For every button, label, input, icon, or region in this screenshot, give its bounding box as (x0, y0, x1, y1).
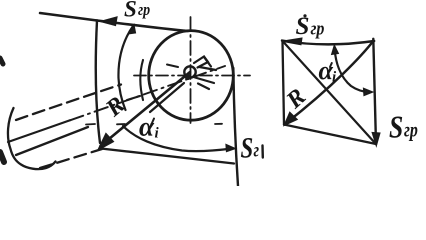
arrowhead Srp right-figure right (372, 133, 380, 146)
label Srp top right figure (296, 13, 325, 40)
hub stroke lower right b (198, 84, 209, 90)
workpiece top dashed edge (16, 85, 121, 121)
svg-text:R: R (101, 92, 131, 123)
inclined axis dash-dot through center (8, 120, 70, 142)
svg-text:S: S (389, 110, 403, 145)
right figure: diagonal R vector (285, 42, 373, 124)
scan artifact left edge lower (0, 152, 4, 162)
right figure: diagonal resultant (283, 42, 375, 144)
right figure: bottom edge (284, 125, 376, 145)
label Srf thin stroke (261, 146, 264, 158)
wire right vertical edge / Srf vector line (233, 68, 238, 186)
dash line under circle c (215, 123, 222, 125)
wire top edge of cutter holder (97, 21, 188, 32)
svg-text:S: S (241, 130, 254, 164)
arrowhead trajectory arc up (128, 25, 135, 35)
angle arc alpha-i (123, 126, 231, 151)
stray dash near R label (127, 96, 140, 100)
svg-text:i: i (155, 126, 160, 142)
arrowhead Srp left-figure top vector (101, 17, 118, 26)
workpiece broken end cap (8, 108, 56, 169)
svg-text:S: S (124, 0, 137, 22)
hub stroke lower right a (195, 78, 214, 84)
arrowhead R at tool tip (99, 134, 114, 150)
arrowhead right-figure alpha arc bottom (364, 88, 373, 95)
svg-text:R: R (281, 84, 311, 115)
tooth stroke 3 (200, 67, 217, 70)
right figure angle arc alpha-i (335, 48, 371, 92)
dot above S right figure (303, 14, 306, 17)
alpha ascender stroke right figure (330, 63, 332, 67)
arrowhead right-figure alpha arc top (332, 45, 339, 55)
dash left of hub (167, 65, 178, 68)
dash line under circle b (117, 123, 125, 125)
svg-text:г: г (254, 140, 260, 161)
arrowhead Srp right-figure top (282, 38, 303, 45)
workpiece bottom dashed edge (40, 149, 102, 168)
arrowhead R right figure (284, 112, 297, 125)
inclined axis dash-dot continuation (70, 66, 225, 120)
hub ink blob (185, 74, 191, 80)
svg-text:i: i (332, 70, 337, 86)
svg-text:α: α (139, 112, 155, 142)
dash line under circle a (86, 123, 95, 126)
svg-text:S: S (296, 13, 310, 40)
workpiece lower solid edge (16, 127, 88, 155)
right figure: right edge Srp vector (373, 39, 376, 144)
tooth stroke 2 (204, 57, 211, 67)
horizontal center line (134, 75, 250, 77)
right figure: top edge Srp vector (282, 41, 374, 45)
wire bottom edge of holder (101, 149, 234, 164)
svg-text:гр: гр (404, 119, 418, 143)
svg-text:гр: гр (311, 17, 325, 39)
small circle hub (184, 66, 195, 77)
tooth mark at hub (194, 57, 208, 68)
arc trajectory with up arrow (118, 26, 133, 110)
big circle cutter body (149, 31, 234, 121)
svg-text:гр: гр (138, 1, 150, 19)
label alpha-i left figure (139, 112, 160, 142)
vertical center line (190, 17, 192, 123)
label Srf bottom left figure (241, 130, 260, 164)
right figure: left edge (283, 41, 285, 125)
concentric arc segment left of circle (140, 60, 143, 100)
wire left edge of holder (96, 21, 100, 144)
arrowhead alpha arc right (226, 145, 235, 152)
label Srp top left figure (124, 0, 150, 22)
wire top extension line left figure (40, 13, 97, 21)
label alpha-i right figure (319, 56, 338, 86)
scan artifact left edge upper (0, 58, 3, 64)
alpha ascender stroke left figure (152, 119, 154, 124)
radius line R (101, 72, 191, 146)
label Srp right side right figure (389, 110, 418, 145)
radius line double stroke (150, 83, 184, 112)
